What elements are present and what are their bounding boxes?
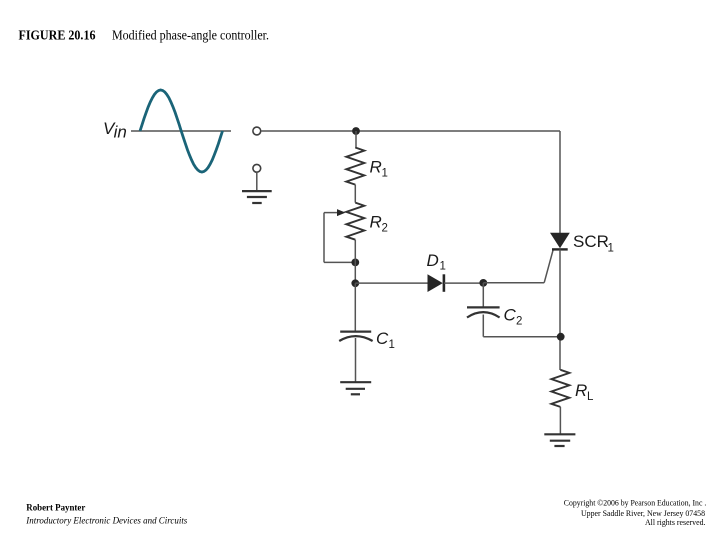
node B (wiper junction) [351,259,359,267]
svg-text:R: R [370,158,382,177]
wire C2 to node E [482,315,484,337]
svg-text:R: R [575,381,587,400]
node E (load junction) [557,333,565,341]
node A (top junction) [352,127,360,135]
wire node D to C2 [482,283,484,307]
node C (divider output) [351,279,359,287]
svg-text:SCR: SCR [573,232,609,251]
resistor RL [551,370,569,407]
wire node D to gate [483,282,544,284]
svg-text:Modified phase-angle controlle: Modified phase-angle controller. [112,28,269,43]
svg-text:1: 1 [440,261,446,273]
wire RL to ground [559,407,561,434]
source axis line [131,130,231,132]
gate lead diagonal [544,250,553,282]
wire R2 to node C [354,240,356,284]
svg-text:1: 1 [389,339,395,351]
capacitor C1 [340,331,371,333]
wire node C to D1 [355,282,427,284]
SCR1 [550,233,570,249]
svg-text:R: R [370,213,382,232]
svg-text:FIGURE 20.16: FIGURE 20.16 [19,29,96,44]
ground (C1) [340,382,371,394]
svg-text:1: 1 [382,168,388,180]
svg-text:D: D [427,251,439,270]
svg-text:1: 1 [608,243,614,255]
potentiometer R2 [346,203,364,240]
wire D1 to node D [444,282,483,284]
wire R1 to R2 [354,185,356,203]
input terminal [253,127,261,135]
wiper arrow of R2 [324,212,338,214]
svg-text:C: C [376,329,389,348]
svg-text:2: 2 [516,316,522,328]
svg-text:in: in [114,123,127,142]
sine wave [140,90,223,172]
wire node A to R1 [355,131,357,148]
svg-text:L: L [587,391,594,403]
svg-text:Introductory Electronic Device: Introductory Electronic Devices and Circ… [25,517,187,527]
wire to ground [256,172,258,191]
ground (input) [242,191,272,203]
node D (gate junction) [479,279,487,287]
ground terminal circle [253,164,261,172]
svg-text:Robert Paynter: Robert Paynter [26,503,85,513]
wire top horizontal [261,130,560,132]
footer copyright [564,498,707,528]
svg-text:Copyright ©2006 by Pearson Edu: Copyright ©2006 by Pearson Education, In… [564,498,707,508]
wiper wire to node [324,261,356,263]
wire node C down to C1 [354,283,356,331]
ground (load) [544,434,575,446]
diode D1 [428,274,443,292]
capacitor C2 [467,306,500,308]
resistor R1 [346,148,364,185]
svg-text:All rights reserved.: All rights reserved. [645,517,706,527]
svg-text:2: 2 [382,223,388,235]
wire top to SCR anode [559,131,561,233]
wire C1 to ground [355,338,357,382]
wire SCR cathode down [559,249,561,370]
wiper wire down [323,213,325,263]
svg-text:C: C [504,306,517,325]
